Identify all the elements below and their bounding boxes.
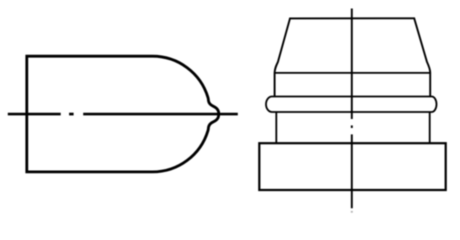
left view horizontal centerline bbox=[8, 113, 238, 116]
right view: trapezoid + upper cylinder sides bbox=[275, 18, 431, 96]
left view outline bbox=[27, 56, 219, 172]
right view: vertical centerline bbox=[351, 9, 353, 213]
right view: horizontal shoulder line bbox=[275, 72, 431, 74]
right view: base rectangle bbox=[259, 143, 445, 190]
right view: neck verticals bbox=[275, 112, 277, 143]
right view: bead (stadium) bbox=[266, 97, 436, 113]
